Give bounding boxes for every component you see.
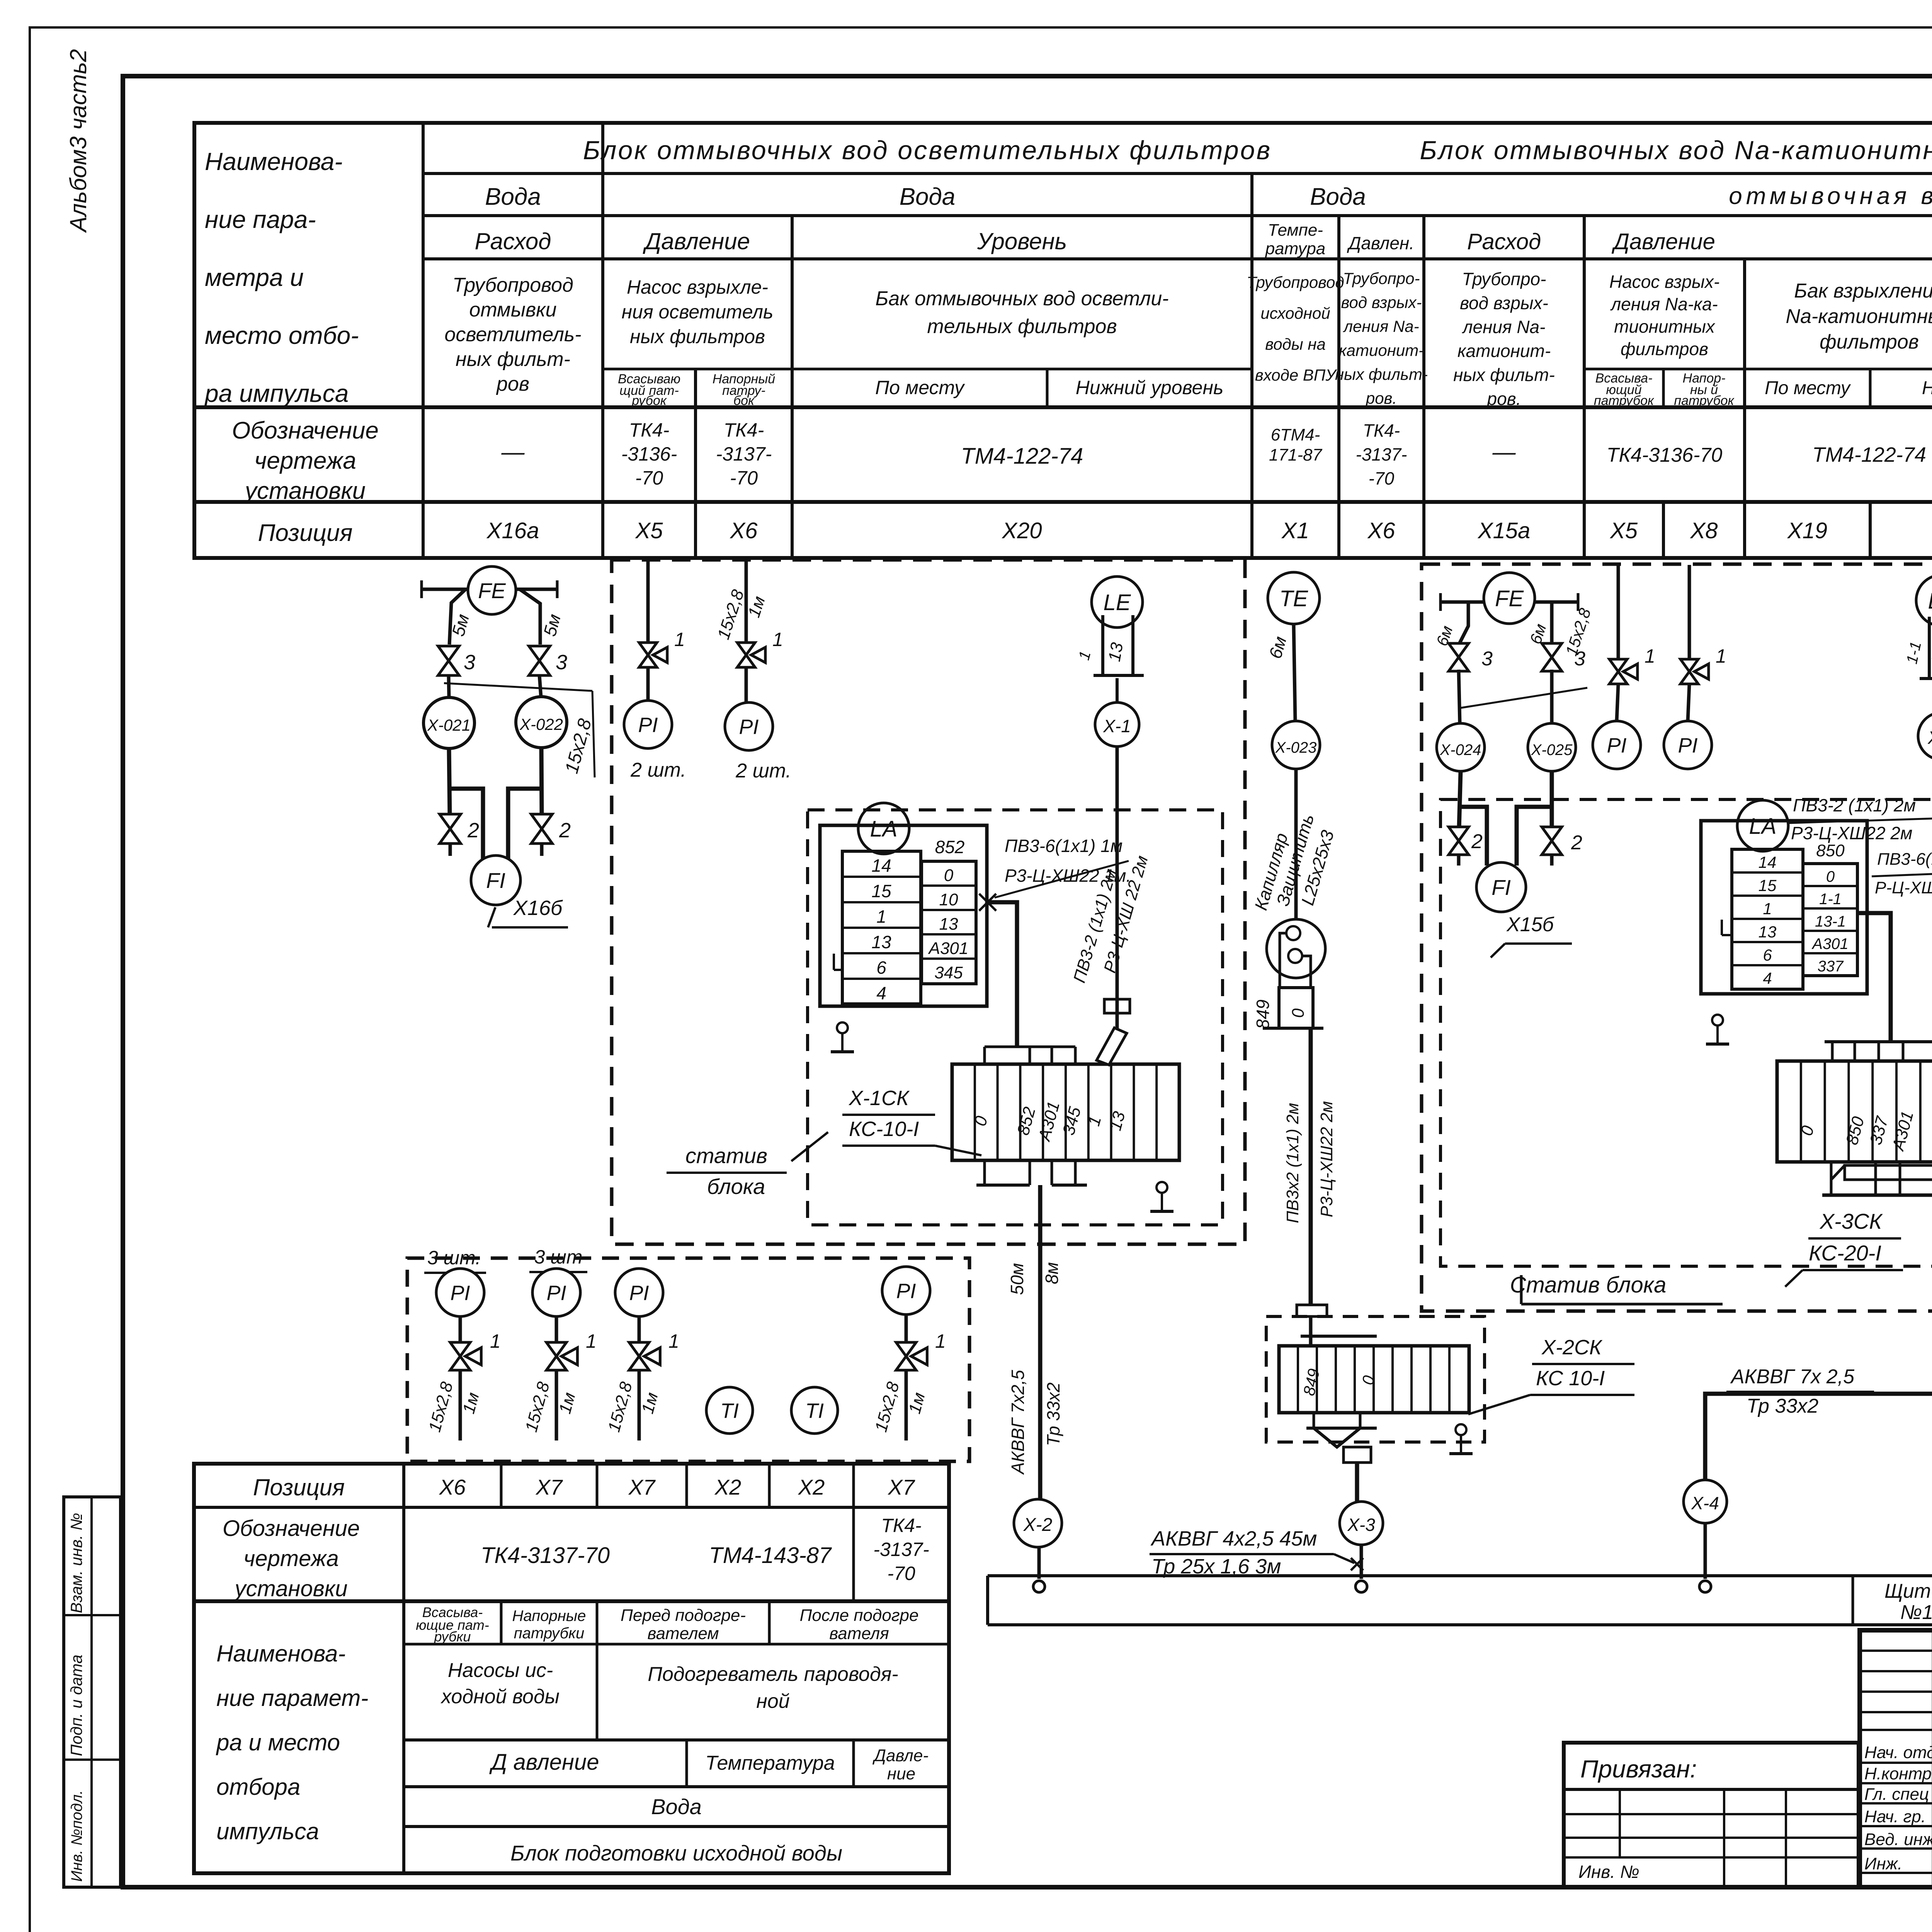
svg-text:ТМ4-122-74: ТМ4-122-74 — [961, 444, 1083, 469]
svg-text:15: 15 — [1759, 876, 1777, 895]
svg-text:рубок: рубок — [631, 393, 667, 408]
ground at stand — [1156, 1182, 1167, 1193]
svg-text:Р3-Ц-ХШ22 1м.: Р3-Ц-ХШ22 1м. — [1005, 866, 1131, 886]
svg-text:Х-024: Х-024 — [1440, 742, 1481, 759]
svg-text:А301: А301 — [1811, 935, 1848, 952]
svg-text:Р-Ц-ХШ22 1м: Р-Ц-ХШ22 1м — [1875, 878, 1932, 897]
svg-text:Бак взрыхления: Бак взрыхления — [1794, 280, 1932, 302]
svg-text:ра и место: ра и место — [216, 1730, 340, 1755]
svg-text:0: 0 — [944, 866, 954, 885]
svg-text:Х5: Х5 — [1609, 518, 1638, 543]
svg-text:Х16а: Х16а — [486, 518, 539, 543]
svg-text:вод взрых-: вод взрых- — [1341, 293, 1422, 311]
svg-text:Блок отмывочных вод осветитель: Блок отмывочных вод осветительных фильтр… — [583, 136, 1272, 165]
svg-text:Позиция: Позиция — [253, 1475, 345, 1500]
valve 1 a — [639, 643, 657, 667]
svg-text:337: 337 — [1818, 958, 1844, 975]
svg-text:отбора: отбора — [216, 1774, 300, 1800]
svg-text:установки: установки — [243, 478, 366, 504]
svg-text:ПВ3х2 (1х1) 2м: ПВ3х2 (1х1) 2м — [1283, 1103, 1302, 1223]
wire to capillary coil — [1294, 769, 1298, 925]
svg-text:-70: -70 — [1369, 468, 1395, 488]
pressure gauge PI d — [1664, 721, 1712, 769]
svg-text:Расход: Расход — [475, 228, 551, 254]
svg-text:3 шт.: 3 шт. — [427, 1247, 481, 1269]
capillary coil symbol — [1267, 919, 1325, 978]
svg-text:Х-023: Х-023 — [1275, 739, 1317, 756]
svg-text:Давление: Давление — [1611, 229, 1715, 254]
svg-text:6ТМ4-: 6ТМ4- — [1271, 425, 1320, 444]
svg-text:ТМ4-143-87: ТМ4-143-87 — [709, 1543, 832, 1568]
flow element FE — [468, 566, 516, 614]
strip rail top — [1825, 1040, 1932, 1043]
ground at LA box — [837, 1022, 848, 1033]
svg-text:-70: -70 — [635, 467, 663, 489]
strip top connector — [1297, 1305, 1327, 1316]
svg-text:Тр 33х2: Тр 33х2 — [1747, 1395, 1818, 1417]
svg-text:ПВ3-6(1х1) 1м: ПВ3-6(1х1) 1м — [1877, 850, 1932, 869]
instrument X-025 — [1528, 723, 1576, 771]
svg-text:Х-5: Х-5 — [1927, 728, 1932, 748]
svg-text:PI: PI — [546, 1281, 566, 1304]
svg-text:2 шт.: 2 шт. — [630, 759, 686, 781]
pressure gauge PI b — [725, 702, 773, 750]
svg-text:-70: -70 — [887, 1563, 915, 1584]
svg-text:исходной: исходной — [1260, 304, 1330, 322]
svg-text:850: 850 — [1816, 841, 1845, 860]
svg-text:ТК4-: ТК4- — [881, 1515, 921, 1536]
svg-text:TI: TI — [720, 1399, 739, 1422]
svg-text:ления Nа-: ления Nа- — [1342, 317, 1419, 335]
svg-text:Х-1: Х-1 — [1103, 716, 1131, 736]
svg-text:50м: 50м — [1007, 1263, 1027, 1295]
svg-text:Насос взрых-: Насос взрых- — [1609, 272, 1719, 292]
valve 1 d — [1688, 565, 1691, 659]
svg-text:1: 1 — [668, 1330, 679, 1352]
svg-text:чертежа: чертежа — [243, 1546, 339, 1571]
valve 3 left — [438, 646, 459, 675]
svg-text:Нач. гр.: Нач. гр. — [1864, 1807, 1926, 1826]
svg-text:Х6: Х6 — [439, 1475, 466, 1499]
svg-text:14: 14 — [1759, 853, 1777, 871]
svg-text:3: 3 — [556, 651, 567, 674]
pressure gauge PI 2 — [532, 1269, 580, 1316]
svg-text:Инв. №: Инв. № — [1578, 1862, 1639, 1882]
level element LE 1 — [1916, 575, 1932, 626]
cable down from strip to X-2 — [1038, 1185, 1043, 1499]
svg-text:1: 1 — [674, 629, 685, 650]
svg-text:15: 15 — [871, 881, 891, 901]
control panel bus — [988, 1574, 1932, 1577]
level element LE — [1092, 577, 1143, 628]
svg-text:LE: LE — [1928, 588, 1932, 614]
connector X-5 — [1918, 713, 1932, 760]
svg-text:Давлен.: Давлен. — [1347, 233, 1414, 253]
valve 1-2 — [546, 1342, 566, 1370]
wire — [646, 667, 650, 701]
impulse header line — [422, 588, 557, 591]
svg-text:катионит-: катионит- — [1458, 341, 1551, 361]
svg-text:вателем: вателем — [647, 1624, 719, 1643]
svg-text:Х-1СК: Х-1СК — [848, 1087, 910, 1110]
ground at X-2SK — [1456, 1424, 1466, 1435]
cable LA-left to strip — [1857, 913, 1891, 1042]
svg-text:2: 2 — [1471, 830, 1483, 853]
svg-text:13: 13 — [871, 932, 891, 952]
svg-text:ров: ров — [496, 373, 529, 395]
svg-text:Х5: Х5 — [635, 518, 663, 543]
svg-text:4: 4 — [876, 983, 886, 1003]
LE pocket tube 13 — [1101, 615, 1104, 675]
svg-text:—: — — [501, 439, 525, 465]
svg-text:PI: PI — [1607, 734, 1626, 757]
wire — [449, 675, 449, 697]
svg-text:Х-2: Х-2 — [1023, 1515, 1053, 1535]
svg-text:Х-021: Х-021 — [427, 716, 471, 734]
svg-text:FE: FE — [1495, 586, 1524, 611]
pressure gauge PI c — [1593, 721, 1641, 769]
svg-text:Гл. спец: Гл. спец — [1864, 1785, 1929, 1804]
svg-text:TE: TE — [1279, 586, 1308, 611]
LA-left rows column — [1732, 849, 1803, 989]
svg-text:1: 1 — [490, 1330, 501, 1352]
X-2SK dashed enclosure — [1266, 1316, 1485, 1442]
svg-text:вод взрых-: вод взрых- — [1460, 293, 1548, 313]
valve 1-3 — [629, 1342, 649, 1370]
flow indicator FI right — [1476, 862, 1526, 912]
svg-text:воды на: воды на — [1265, 335, 1326, 353]
svg-text:LA: LA — [1749, 814, 1777, 839]
svg-text:Х-025: Х-025 — [1531, 742, 1573, 759]
alarm unit LA — [858, 803, 909, 854]
svg-text:Трубопро-: Трубопро- — [1343, 269, 1420, 287]
valve 1 b — [737, 643, 755, 667]
svg-text:3: 3 — [1481, 648, 1493, 670]
svg-text:Напорные: Напорные — [512, 1607, 586, 1624]
svg-text:2: 2 — [467, 819, 479, 842]
svg-text:2: 2 — [559, 819, 571, 842]
svg-text:отмывочная вода: отмывочная вода — [1729, 183, 1932, 209]
svg-text:Х-4: Х-4 — [1691, 1493, 1719, 1513]
svg-text:Х-2СК: Х-2СК — [1541, 1336, 1603, 1359]
temperature indicator TI 1 — [706, 1387, 753, 1434]
svg-text:1: 1 — [876, 906, 886, 927]
svg-text:Н.контр: Н.контр — [1864, 1764, 1932, 1783]
svg-text:вателя: вателя — [829, 1624, 889, 1643]
svg-text:PI: PI — [629, 1281, 649, 1304]
impulse diagonal marker — [444, 683, 592, 691]
svg-text:-70: -70 — [730, 467, 758, 489]
svg-text:чертежа: чертежа — [254, 447, 356, 474]
svg-text:Р3-Ц-ХШ22 2м: Р3-Ц-ХШ22 2м — [1791, 823, 1912, 843]
branch to valve3 a — [1459, 602, 1468, 645]
svg-text:Темпе-: Темпе- — [1268, 221, 1323, 240]
svg-text:Давление: Давление — [643, 228, 750, 254]
wire stub 2 — [745, 561, 748, 643]
svg-text:ТК4-3137-70: ТК4-3137-70 — [481, 1543, 610, 1568]
svg-text:Обозначение: Обозначение — [232, 417, 379, 444]
terminal strip X-2SK — [1279, 1346, 1469, 1413]
svg-text:FI: FI — [486, 868, 505, 893]
svg-text:Наименова-: Наименова- — [205, 148, 343, 175]
strip top connectors — [985, 1046, 1075, 1048]
svg-text:Вед. инж: Вед. инж — [1864, 1830, 1932, 1849]
svg-text:FE: FE — [478, 578, 506, 603]
impulse diagonal marker right — [1461, 688, 1587, 708]
wire stub 1 — [646, 561, 650, 643]
bottom parameter table — [194, 1464, 949, 1873]
valve 1-4 — [896, 1342, 916, 1370]
svg-text:отмывки: отмывки — [469, 299, 556, 321]
svg-text:—: — — [1492, 439, 1516, 465]
svg-text:PI: PI — [896, 1279, 916, 1303]
svg-text:Х-3: Х-3 — [1347, 1515, 1375, 1535]
svg-text:Температура: Температура — [705, 1752, 835, 1774]
svg-text:По месту: По месту — [875, 377, 965, 398]
svg-text:3 шт: 3 шт — [534, 1246, 583, 1268]
svg-text:1: 1 — [1645, 645, 1655, 667]
wire LA to stand with X — [979, 894, 996, 911]
svg-text:ние: ние — [887, 1764, 915, 1783]
valve 3 right — [529, 646, 550, 675]
valve 2 b — [1542, 827, 1562, 855]
svg-text:852: 852 — [935, 837, 965, 857]
svg-text:ТК4-: ТК4- — [1363, 420, 1400, 440]
svg-text:Бак отмывочных вод осветли-: Бак отмывочных вод осветли- — [875, 287, 1168, 310]
svg-text:рубки: рубки — [434, 1629, 471, 1645]
svg-text:6: 6 — [1763, 946, 1772, 964]
svg-text:ходной воды: ходной воды — [440, 1685, 560, 1708]
alarm unit LA left — [1737, 800, 1788, 851]
svg-text:место отбо-: место отбо- — [205, 321, 359, 349]
svg-text:ние парамет-: ние парамет- — [216, 1685, 368, 1711]
wire X-1 down to stand — [1116, 747, 1119, 1029]
svg-text:Подп. и дата: Подп. и дата — [67, 1655, 85, 1756]
right block inner dashed stand box — [1440, 799, 1932, 1266]
svg-text:Блок отмывочных вод Nа-кати: Блок отмывочных вод Nа-катионитных фильт… — [1420, 136, 1932, 165]
wire X-4 to bus — [1704, 1523, 1707, 1579]
svg-text:Насос взрыхле-: Насос взрыхле- — [627, 276, 768, 298]
wire X-3 to panel bus — [1360, 1545, 1363, 1579]
svg-text:Расход: Расход — [1467, 229, 1541, 254]
svg-text:Вода: Вода — [485, 184, 541, 210]
svg-text:ния осветитель: ния осветитель — [622, 301, 774, 323]
svg-text:Х16б: Х16б — [513, 896, 563, 920]
right block dashed enclosure — [1422, 564, 1932, 1311]
svg-text:бок: бок — [733, 393, 755, 408]
impulse header line right — [1440, 600, 1578, 604]
svg-text:ра импульса: ра импульса — [204, 379, 349, 407]
svg-text:Х7: Х7 — [887, 1475, 915, 1499]
svg-text:2: 2 — [1571, 832, 1582, 854]
valve 2 right — [531, 814, 553, 844]
svg-text:3: 3 — [464, 651, 475, 674]
svg-text:Д авление: Д авление — [489, 1750, 599, 1775]
svg-text:Подогреватель пароводя-: Подогреватель пароводя- — [648, 1663, 898, 1685]
svg-text:TI: TI — [805, 1399, 824, 1422]
strip bottom rail and duct — [1845, 1165, 1932, 1180]
svg-text:13: 13 — [939, 915, 958, 934]
svg-text:Насосы ис-: Насосы ис- — [448, 1659, 553, 1682]
strip bottom connectors — [983, 1160, 986, 1185]
left block dashed enclosure — [612, 560, 1245, 1244]
svg-text:Х7: Х7 — [535, 1475, 563, 1499]
ground at LA-left — [1712, 1015, 1723, 1026]
svg-text:ров.: ров. — [1365, 389, 1397, 407]
binding box — [1564, 1743, 1859, 1887]
svg-text:171-87: 171-87 — [1269, 446, 1323, 464]
pressure gauge PI 1 — [436, 1269, 484, 1316]
svg-text:-3137-: -3137- — [873, 1539, 929, 1560]
svg-text:Обозначение: Обозначение — [223, 1516, 360, 1541]
svg-text:PI: PI — [638, 713, 658, 736]
svg-text:0: 0 — [1826, 868, 1835, 885]
svg-text:Нач. отд: Нач. отд — [1864, 1743, 1932, 1762]
svg-text:Nа-катионитных: Nа-катионитных — [1786, 305, 1932, 328]
svg-text:Вода: Вода — [1310, 184, 1366, 210]
svg-text:-3137-: -3137- — [716, 443, 772, 465]
svg-text:Х2: Х2 — [798, 1475, 825, 1499]
wire branch right — [520, 589, 540, 645]
svg-text:А301: А301 — [928, 939, 969, 958]
svg-text:Х6: Х6 — [1367, 518, 1396, 543]
pressure gauge PI 4 — [882, 1267, 930, 1315]
svg-text:849: 849 — [1253, 1000, 1273, 1029]
849 junction box — [1279, 988, 1313, 1028]
svg-text:ТК4-: ТК4- — [724, 419, 764, 441]
instrument X-022 — [516, 697, 567, 748]
svg-text:Трубопровод: Трубопровод — [452, 274, 573, 296]
svg-text:Блок подготовки исходной: Блок подготовки исходной воды — [510, 1841, 842, 1865]
top parameter table — [194, 123, 1932, 558]
svg-text:Х15б: Х15б — [1506, 913, 1554, 936]
pressure gauge PI 3 — [615, 1269, 663, 1316]
svg-text:13: 13 — [1759, 923, 1777, 941]
svg-text:фильтров: фильтров — [1820, 331, 1919, 353]
stand inner dashed box — [808, 810, 1223, 1225]
svg-text:После подогре: После подогре — [800, 1606, 919, 1625]
svg-text:Наименова-: Наименова- — [216, 1641, 345, 1667]
valve 2 a — [1449, 827, 1469, 855]
valve 1 c — [1617, 565, 1620, 659]
svg-text:1: 1 — [935, 1330, 946, 1352]
svg-text:импульса: импульса — [216, 1818, 319, 1844]
valve 1-1 — [450, 1342, 470, 1370]
temperature indicator TI 2 — [791, 1387, 838, 1434]
connector X-3 — [1340, 1502, 1383, 1545]
svg-text:Инж.: Инж. — [1864, 1854, 1902, 1873]
svg-text:Инв. №подл.: Инв. №подл. — [68, 1790, 85, 1882]
svg-text:1: 1 — [586, 1330, 597, 1352]
pressure gauge PI a — [624, 701, 672, 748]
svg-text:тельных фильтров: тельных фильтров — [927, 315, 1117, 338]
svg-text:Тр 33х2: Тр 33х2 — [1043, 1383, 1063, 1446]
svg-text:Статив блока: Статив блока — [1510, 1272, 1667, 1298]
svg-text:фильтров: фильтров — [1621, 339, 1708, 359]
svg-text:блока: блока — [707, 1174, 765, 1199]
svg-text:Вода: Вода — [651, 1794, 702, 1819]
svg-text:FI: FI — [1492, 875, 1511, 900]
svg-text:1: 1 — [772, 629, 783, 650]
svg-text:PI: PI — [450, 1281, 470, 1304]
cable down to X-2SK — [1309, 1028, 1313, 1305]
svg-text:ления Nа-: ления Nа- — [1462, 317, 1546, 337]
svg-text:10: 10 — [939, 890, 958, 909]
svg-text:Х1: Х1 — [1281, 518, 1309, 543]
branch to valve3 b — [1550, 602, 1554, 645]
svg-text:АКВВГ 7х2,5: АКВВГ 7х2,5 — [1008, 1370, 1028, 1475]
svg-text:1: 1 — [1763, 900, 1772, 918]
svg-text:ления Nа-ка-: ления Nа-ка- — [1610, 294, 1718, 314]
wire X-025 down with tee — [1550, 771, 1554, 828]
svg-text:катионит-: катионит- — [1339, 341, 1424, 359]
svg-text:Позиция: Позиция — [258, 520, 352, 546]
svg-text:ных фильтров: ных фильтров — [630, 326, 765, 347]
svg-text:ных фильт-: ных фильт- — [456, 348, 570, 371]
svg-text:Перед подогре-: Перед подогре- — [621, 1606, 746, 1625]
valve 2 left — [440, 814, 461, 844]
cable to X-4 — [1705, 1394, 1932, 1480]
svg-text:Нижний уровень: Нижний уровень — [1922, 378, 1932, 398]
svg-text:ТК4-3136-70: ТК4-3136-70 — [1607, 444, 1723, 466]
svg-text:КС 10-I: КС 10-I — [1536, 1367, 1605, 1390]
svg-text:Х6: Х6 — [730, 518, 758, 543]
svg-text:4: 4 — [1763, 969, 1772, 987]
svg-text:Х19: Х19 — [1787, 518, 1827, 543]
wire — [745, 667, 748, 702]
LA-left terminal box — [1701, 821, 1867, 994]
svg-text:14: 14 — [871, 855, 891, 876]
svg-text:Х15а: Х15а — [1477, 518, 1530, 543]
wire branch left — [449, 589, 466, 645]
svg-text:ТК4-: ТК4- — [629, 419, 669, 441]
svg-text:Щит управления: Щит управления — [1884, 1580, 1932, 1602]
svg-text:По месту: По месту — [1765, 378, 1851, 398]
svg-text:Давле-: Давле- — [872, 1746, 929, 1765]
connector X-1 — [1095, 702, 1139, 747]
instrument X-024 — [1437, 723, 1485, 771]
svg-text:13-1: 13-1 — [1815, 913, 1846, 930]
svg-text:Уровень: Уровень — [977, 228, 1067, 254]
svg-text:Вода: Вода — [900, 184, 956, 210]
svg-text:тионитных: тионитных — [1614, 316, 1716, 337]
svg-text:патрубок: патрубок — [1674, 393, 1735, 408]
svg-text:Х-3СК: Х-3СК — [1819, 1209, 1883, 1233]
svg-text:LE: LE — [1104, 590, 1131, 615]
svg-text:1: 1 — [1716, 645, 1726, 667]
svg-text:Нижний уровень: Нижний уровень — [1076, 377, 1224, 398]
svg-text:LA: LA — [870, 816, 898, 842]
LA terminal box — [820, 825, 987, 1006]
svg-text:патрубки: патрубки — [514, 1625, 585, 1642]
svg-text:АКВВГ 7х 2,5: АКВВГ 7х 2,5 — [1730, 1366, 1855, 1388]
flow indicator FI — [471, 855, 520, 905]
svg-text:PI: PI — [1678, 734, 1697, 757]
svg-text:ных фильт-: ных фильт- — [1453, 365, 1555, 385]
svg-text:Взам. инв. №: Взам. инв. № — [67, 1513, 85, 1613]
svg-text:8м: 8м — [1042, 1262, 1062, 1284]
connector X-4 — [1684, 1480, 1727, 1523]
LA left terminal column — [842, 851, 921, 1004]
svg-text:ТМ4-122-74: ТМ4-122-74 — [1812, 443, 1926, 466]
svg-text:установки: установки — [233, 1576, 347, 1601]
connector X-023 — [1272, 721, 1320, 769]
svg-text:Трубопровод: Трубопровод — [1247, 273, 1344, 291]
svg-text:-3136-: -3136- — [621, 443, 677, 465]
svg-text:0: 0 — [1289, 1008, 1308, 1018]
svg-text:Привязан:: Привязан: — [1580, 1755, 1697, 1783]
svg-text:осветлитель-: осветлитель- — [444, 323, 581, 346]
